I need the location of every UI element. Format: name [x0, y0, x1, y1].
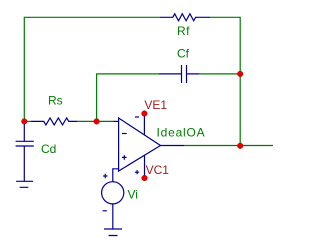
plus marker VC1 [135, 170, 139, 174]
svg-text:VC1: VC1 [146, 163, 170, 177]
svg-text:Cd: Cd [41, 142, 56, 156]
resistor Rs [31, 118, 77, 125]
wire Rs right to node B [77, 120, 97, 122]
wire Rs left [24, 120, 31, 122]
svg-text:IdealOA: IdealOA [157, 125, 206, 139]
wire inverting input [97, 120, 114, 122]
op-amp non-inverting input stub [113, 169, 119, 182]
node VE1 dot [142, 111, 148, 117]
wire right vertical [239, 17, 241, 146]
node B dot (Rs / inverting input junction) [94, 119, 100, 125]
wire Cf branch right segment [199, 73, 240, 75]
minus marker VE1 [135, 116, 139, 118]
svg-text:Vi: Vi [128, 187, 138, 201]
svg-text:Cf: Cf [177, 47, 190, 61]
capacitor Cd [16, 121, 34, 181]
minus marker Vi [103, 210, 107, 212]
op-amp plus marker inside [122, 155, 127, 160]
node dot Cf right / feedback junction [237, 71, 243, 77]
svg-text:Rf: Rf [177, 24, 190, 38]
resistor Rf [160, 14, 210, 21]
wire node B vertical to Cf branch [96, 74, 98, 122]
wire Cf branch left segment [96, 73, 159, 75]
voltage source Vi circle [102, 182, 124, 204]
ground (Cd) [16, 181, 33, 187]
node VC1 dot [142, 175, 148, 181]
wire output net [184, 145, 273, 147]
op-amp inverting input stub [114, 120, 119, 122]
wire Vi bottom lead [112, 204, 114, 229]
wire left vertical [23, 17, 25, 122]
svg-text:VE1: VE1 [144, 98, 167, 112]
plus marker Vi [103, 174, 107, 178]
pin VE1 lead [143, 114, 145, 136]
op-amp minus marker inside [122, 133, 127, 135]
capacitor Cf [159, 65, 199, 83]
svg-text:Rs: Rs [48, 94, 63, 108]
op-amp output stub [161, 145, 185, 147]
wire top net: Rf to top-right corner [210, 16, 240, 18]
node dot output junction [237, 143, 243, 149]
pin VC1 lead [144, 155, 146, 178]
op-amp U1 triangle [119, 118, 161, 171]
ground (Vi) [104, 229, 122, 236]
wire top net: left node to Rf [24, 16, 160, 18]
node A dot (left junction) [22, 119, 28, 125]
